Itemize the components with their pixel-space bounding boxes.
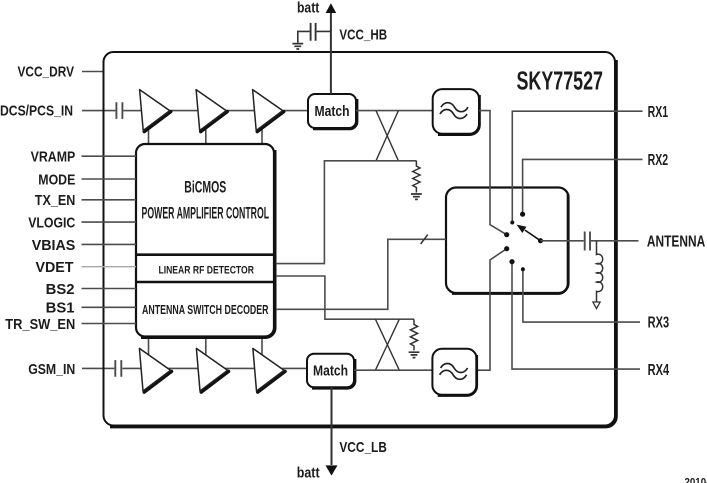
resistor R1 (HB) — [413, 161, 420, 193]
wire VCC_HB feed — [330, 12, 332, 94]
wire TR_SW_EN lead — [82, 323, 137, 325]
ground G1 — [292, 44, 303, 49]
ground G2 — [411, 194, 422, 199]
wire DCS amp chain — [139, 110, 308, 112]
amplifier A1 (DCS) — [140, 90, 171, 132]
svg-text:TR_SW_EN: TR_SW_EN — [5, 316, 75, 333]
wire TX_EN lead — [82, 199, 137, 201]
filter F1 (HB) — [433, 89, 480, 135]
capacitor C_ant — [585, 232, 590, 251]
node E (RX4 contact) — [509, 259, 514, 264]
module outline SKY77527 — [104, 52, 617, 427]
rf-ground arrow (antenna) — [593, 302, 600, 309]
svg-text:SKY77527: SKY77527 — [517, 66, 604, 96]
wire LB filter to switch throw — [477, 249, 507, 371]
wire VCC_LB feed — [331, 387, 333, 465]
match box M1 (HB) — [308, 94, 357, 129]
wire GSM amp chain — [139, 367, 307, 369]
svg-text:BiCMOS: BiCMOS — [184, 179, 226, 197]
amplifier A3 (DCS) — [253, 90, 284, 132]
arrow batt top — [326, 3, 337, 13]
wire antenna from pole — [541, 240, 584, 242]
svg-text:Match: Match — [313, 362, 348, 379]
node B (RX2 contact) — [520, 212, 525, 217]
wire VCC_HB cap branch — [298, 31, 331, 42]
svg-text:POWER AMPLIFIER CONTROL: POWER AMPLIFIER CONTROL — [142, 203, 270, 222]
inductor L1 (antenna shunt) — [597, 241, 603, 302]
wire HB filter to switch throw — [479, 111, 507, 235]
svg-text:RX3: RX3 — [648, 315, 670, 332]
amplifier A6 (GSM) — [253, 348, 285, 392]
svg-text:Match: Match — [315, 103, 350, 120]
capacitor C_gsm — [115, 360, 139, 377]
svg-text:VCC_LB: VCC_LB — [339, 439, 387, 456]
wire VRAMP lead — [82, 155, 137, 157]
svg-text:VDET: VDET — [36, 259, 74, 276]
amplifier A4 (GSM) — [139, 348, 171, 392]
capacitor C_dcs — [116, 102, 139, 119]
wire HB match to filter — [356, 110, 433, 112]
wire antenna out — [591, 240, 639, 242]
wire VBIAS lead — [82, 243, 137, 245]
wire control stubs to DCS amps — [149, 116, 263, 144]
wire detector line LB — [276, 276, 414, 319]
wire BS1 lead — [82, 306, 137, 308]
svg-text:BS2: BS2 — [46, 281, 75, 298]
svg-text:VRAMP: VRAMP — [31, 149, 76, 166]
svg-text:batt: batt — [297, 0, 319, 16]
svg-text:VCC_DRV: VCC_DRV — [18, 64, 75, 81]
wire RX3 — [523, 269, 640, 322]
svg-text:GSM_IN: GSM_IN — [28, 361, 75, 378]
svg-text:ANTENNA: ANTENNA — [647, 234, 706, 251]
coupler X1 (HB) — [376, 111, 398, 161]
amplifier A2 (DCS) — [196, 90, 227, 132]
match box M2 (LB) — [307, 354, 355, 389]
filter F2 (LB) — [432, 349, 476, 396]
wire control stubs to GSM amps — [149, 337, 263, 366]
svg-text:RX2: RX2 — [648, 152, 669, 169]
svg-text:MODE: MODE — [38, 171, 75, 188]
wire RX1 — [512, 111, 642, 222]
wire BS2 lead — [82, 288, 137, 290]
resistor R2 (LB) — [410, 319, 417, 350]
node G (antenna pole) — [538, 238, 543, 243]
ground G3 — [409, 352, 420, 357]
svg-text:RX4: RX4 — [648, 362, 670, 379]
wire VLOGIC lead — [82, 221, 137, 223]
svg-text:BS1: BS1 — [46, 300, 75, 317]
arrow batt bottom — [326, 465, 338, 475]
wire detector line HB — [276, 161, 416, 264]
switch pole arm with arrow — [517, 225, 541, 241]
node A (RX1 contact) — [510, 221, 514, 225]
coupler X2 (LB) — [375, 319, 399, 370]
wire RX2 — [523, 159, 643, 214]
wire LB match to filter — [354, 369, 432, 371]
wire VCC_DRV lead — [82, 71, 104, 73]
bus slash mark — [421, 235, 428, 244]
switch box SW1 — [446, 188, 569, 294]
svg-text:VLOGIC: VLOGIC — [28, 215, 75, 232]
svg-text:VCC_HB: VCC_HB — [339, 26, 387, 43]
svg-text:VBIAS: VBIAS — [32, 237, 76, 254]
wire VDET lead (grey) — [82, 266, 137, 268]
control block BiCMOS — [136, 144, 275, 338]
svg-text:LINEAR RF DETECTOR: LINEAR RF DETECTOR — [158, 264, 254, 276]
svg-text:ANTENNA SWITCH DECODER: ANTENNA SWITCH DECODER — [142, 303, 269, 317]
wire GSM_IN lead — [82, 367, 114, 369]
svg-text:batt: batt — [297, 465, 320, 482]
svg-text:TX_EN: TX_EN — [35, 192, 76, 209]
wire DCS/PCS_IN lead — [82, 110, 115, 112]
capacitor C_vcchb — [311, 23, 316, 41]
amplifier A5 (GSM) — [196, 348, 228, 392]
node C (TX HB contact) — [504, 232, 509, 237]
svg-text:RX1: RX1 — [648, 104, 669, 121]
node F (RX3 contact) — [521, 267, 525, 271]
svg-text:20104: 20104 — [685, 476, 707, 483]
wire MODE lead — [82, 178, 137, 180]
node D (TX LB contact) — [504, 246, 509, 251]
svg-text:DCS/PCS_IN: DCS/PCS_IN — [0, 103, 73, 120]
wire RX4 — [512, 262, 640, 369]
wire decoder to switch — [276, 239, 446, 309]
